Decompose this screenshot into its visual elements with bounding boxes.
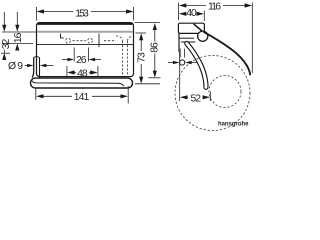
svg-text:73: 73 <box>136 52 147 63</box>
svg-text:hansgrohe: hansgrohe <box>218 121 249 128</box>
svg-text:86: 86 <box>149 42 160 53</box>
svg-text:26: 26 <box>76 55 87 66</box>
svg-text:116: 116 <box>208 2 221 13</box>
svg-text:Ø 9: Ø 9 <box>8 61 23 72</box>
svg-text:52: 52 <box>191 93 202 104</box>
svg-text:16: 16 <box>13 32 24 43</box>
svg-text:40: 40 <box>186 8 197 19</box>
svg-text:153: 153 <box>75 8 89 19</box>
svg-text:141: 141 <box>74 92 90 103</box>
svg-text:48: 48 <box>77 69 88 80</box>
svg-text:32: 32 <box>1 39 12 50</box>
